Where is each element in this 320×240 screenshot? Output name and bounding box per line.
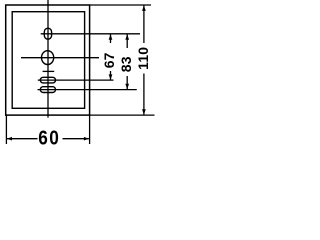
- wire: circle centerline extending left and right: [21, 57, 99, 59]
- wire: bottom-left extension line for 60: [5, 115, 7, 144]
- svg-text:60: 60: [38, 126, 60, 149]
- wire: top slot centerline extending right: [41, 33, 140, 35]
- dimension 60 arrows: [7, 137, 12, 141]
- wire: slot2 centerline extending right: [38, 89, 137, 91]
- slot1 (wide obround hole): [40, 77, 55, 83]
- dimension 110 line (x=144.4): [143, 5, 145, 43]
- wire: bottom-right extension line for 60: [89, 115, 91, 144]
- wire: bottom extension line (bottom edge, extends right): [90, 114, 155, 116]
- top slot (small obround hole): [44, 28, 51, 39]
- wire: slot1 centerline extending right: [38, 79, 114, 81]
- dimension 67 line (x=110.5) top stub + bottom stub: [110, 34, 112, 43]
- svg-text:83: 83: [118, 56, 134, 72]
- circle (center hole): [42, 51, 54, 65]
- outer rect (plate outline): [6, 5, 90, 115]
- dimension 67 arrows: [109, 34, 113, 40]
- wire: vertical centerline: [47, 0, 49, 118]
- svg-text:110: 110: [135, 47, 151, 70]
- dimension 83 arrows: [125, 34, 129, 40]
- svg-text:67: 67: [101, 52, 117, 68]
- dimension 60 line: [7, 138, 38, 140]
- dimension 83 line (x=127.2): [126, 34, 128, 48]
- inner rect: [12, 12, 84, 109]
- dimension 110 arrows: [142, 5, 146, 10]
- wire: top extension line (top edge, extends right): [90, 4, 151, 6]
- slot2 (wide obround hole): [40, 87, 55, 93]
- wire: short tick below circle: [43, 70, 55, 72]
